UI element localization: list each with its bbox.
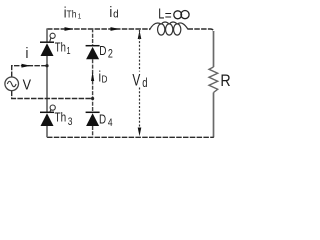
wire left leg node A segment (Th1 bottom to Th3 top) [46, 56, 48, 112]
svg-text:D4: D4 [99, 113, 113, 129]
resistor R [209, 67, 218, 93]
label id [109, 4, 118, 20]
label D4 [99, 113, 113, 129]
label i (source current) [26, 45, 29, 61]
svg-text:Vd: Vd [132, 72, 147, 90]
voltage arrow Vd (top arrowhead) [138, 31, 142, 40]
diode D4 [86, 112, 100, 126]
thyristor Th1 [40, 33, 55, 56]
wire bottom rail [47, 136, 214, 138]
thyristor Th3 [40, 105, 55, 126]
voltage arrow Vd (bottom arrowhead) [138, 128, 142, 137]
label iD [99, 68, 108, 85]
wire right edge below resistor [213, 93, 215, 138]
svg-text:L: L [158, 5, 164, 22]
voltage source V (AC) [5, 77, 19, 91]
wire left leg Th3 bottom lead [46, 126, 48, 137]
svg-text:iTh1: iTh1 [64, 4, 82, 20]
svg-text:=: = [165, 7, 172, 23]
svg-text:iD: iD [99, 68, 108, 85]
svg-text:D2: D2 [99, 44, 113, 61]
svg-text:R: R [220, 72, 230, 90]
node B junction [91, 97, 94, 100]
voltage arrow Vd line lower [139, 88, 141, 128]
svg-text:i: i [26, 45, 29, 61]
gate of Th1 [50, 33, 55, 38]
label Vd [132, 72, 147, 90]
node A junction [45, 64, 48, 67]
label D2 [99, 44, 113, 61]
label iTh1 [64, 4, 82, 20]
svg-text:V: V [23, 76, 32, 93]
current arrow iTh1 on top rail [65, 27, 74, 31]
gate of Th3 [50, 105, 55, 110]
wire left leg Th1 top lead [46, 28, 48, 42]
wire right edge above resistor [213, 31, 215, 67]
svg-text:Th3: Th3 [55, 110, 73, 128]
label V (source) [23, 76, 32, 93]
current arrow iD on right leg [91, 72, 94, 82]
voltage arrow Vd line upper [139, 30, 141, 72]
svg-text:id: id [109, 4, 118, 20]
wire top rail right segment (inductor to top-right corner) [188, 29, 214, 32]
wire top rail left segment (Th1 top to inductor) [47, 28, 150, 30]
wire source top (to node A) [12, 66, 47, 77]
label R [220, 72, 230, 90]
wire right leg D2 bottom to node B to D4 top [92, 59, 94, 112]
label Th1 [55, 41, 71, 56]
label Th3 [55, 110, 73, 128]
diode D2 [86, 46, 100, 60]
inductor L (coil) [150, 22, 189, 35]
wire right leg D2 top lead [92, 28, 94, 45]
wire right leg D4 bottom lead [92, 126, 94, 137]
current arrow id on top rail [111, 27, 120, 31]
svg-text:Th1: Th1 [55, 41, 71, 56]
wire source bottom (to node B) [12, 91, 93, 99]
current arrow i [22, 64, 31, 68]
label L=infinity [158, 5, 171, 23]
